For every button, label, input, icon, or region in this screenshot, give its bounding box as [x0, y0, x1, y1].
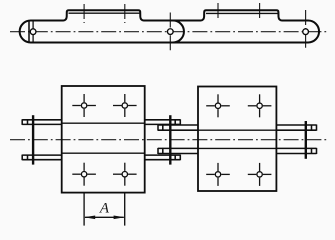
svg-text:A: A: [99, 201, 110, 217]
